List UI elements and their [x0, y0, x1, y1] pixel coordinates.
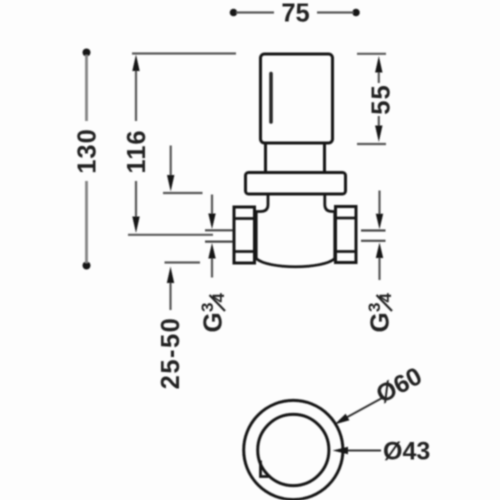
dimension 75 top [230, 0, 360, 28]
svg-text:25-50: 25-50 [157, 317, 185, 390]
svg-text:G: G [365, 312, 395, 332]
dimension 25-50 [157, 146, 203, 390]
valve body right wall [333, 212, 336, 259]
svg-text:Ø43: Ø43 [383, 438, 430, 466]
svg-text:3: 3 [198, 303, 217, 312]
left connector body [234, 207, 255, 263]
bonnet left profile [255, 194, 269, 212]
right connector body [336, 207, 357, 263]
svg-text:116: 116 [123, 129, 151, 173]
valve body bottom arc [256, 259, 335, 267]
neck right wall [323, 143, 326, 173]
svg-text:3: 3 [365, 303, 384, 312]
inner circle O43 [258, 414, 329, 485]
svg-text:G: G [198, 312, 228, 332]
svg-text:75: 75 [281, 0, 309, 28]
flange [246, 173, 346, 195]
keyway notch [261, 461, 269, 477]
left G3/4 thread dimension [198, 195, 233, 333]
handle mark line [269, 74, 273, 123]
svg-text:4: 4 [209, 293, 228, 303]
valve body left wall [255, 212, 258, 259]
leader O60 [335, 362, 427, 424]
leader O43 [333, 438, 431, 466]
right G3/4 thread dimension [361, 191, 395, 333]
dimension 55 [357, 54, 396, 144]
svg-text:55: 55 [368, 84, 396, 114]
bonnet right profile [325, 194, 336, 212]
dimension 130 left [74, 49, 102, 270]
svg-text:130: 130 [74, 128, 102, 174]
outer circle O60 [244, 400, 343, 499]
neck left wall [264, 143, 267, 173]
dimension 116 [123, 54, 236, 235]
handle outline [261, 54, 333, 143]
svg-text:4: 4 [376, 293, 395, 303]
